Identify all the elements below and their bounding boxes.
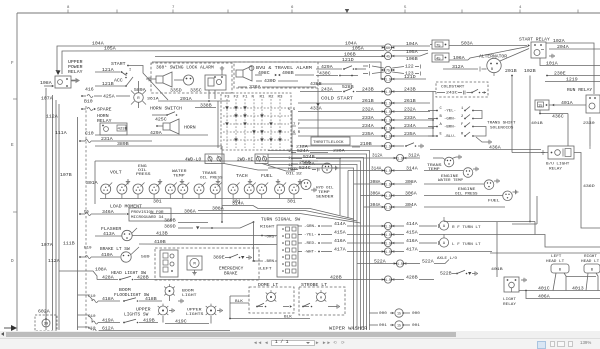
svg-text:A: A <box>443 225 446 229</box>
svg-text:231A: 231A <box>101 136 113 142</box>
svg-text:-GRN-: -GRN- <box>444 118 456 122</box>
wire 308A panel <box>198 206 357 221</box>
bvu speaker <box>236 66 252 81</box>
strobe light enclosure <box>299 283 345 315</box>
svg-text:1.5: 1.5 <box>385 90 391 94</box>
wire 413A 413B <box>95 231 277 238</box>
svg-text:430C: 430C <box>319 71 331 77</box>
svg-text:RIGHT: RIGHT <box>584 255 598 259</box>
svg-text:TEMP: TEMP <box>173 175 185 179</box>
swing lock alarm enclosure <box>151 63 232 93</box>
svg-text:B: B <box>440 115 443 119</box>
wire 436D <box>574 153 600 229</box>
svg-text:261B: 261B <box>362 98 374 104</box>
svg-text:WATER: WATER <box>172 170 187 174</box>
svg-text:OIL PRESS: OIL PRESS <box>200 177 223 181</box>
svg-text:256B: 256B <box>299 160 311 166</box>
ruler center marker <box>345 9 349 13</box>
fuse A10 416 / 425A <box>81 87 130 100</box>
svg-text:1.5: 1.5 <box>397 156 403 160</box>
svg-text:419C: 419C <box>175 319 187 325</box>
svg-text:TRANS: TRANS <box>202 172 217 176</box>
connector row 304A <box>364 202 506 211</box>
svg-text:413B: 413B <box>156 231 168 237</box>
sheet frame left border line <box>16 13 18 332</box>
svg-text:PRESS: PRESS <box>136 173 151 177</box>
alternator <box>479 49 529 77</box>
gauge grounds <box>126 179 302 184</box>
resistor R 361A <box>131 81 159 108</box>
park brake motor <box>187 256 202 275</box>
connector row 308A <box>354 179 484 188</box>
svg-text:N: N <box>252 96 255 100</box>
brake light switch <box>100 247 139 262</box>
svg-text:401A: 401A <box>561 100 573 106</box>
svg-text:361A: 361A <box>147 98 159 102</box>
shift selector diode matrix <box>221 93 291 150</box>
svg-text:COLDSTART: COLDSTART <box>441 86 465 90</box>
svg-text:589: 589 <box>141 256 151 260</box>
svg-text:SOLENOIDS: SOLENOIDS <box>490 127 514 131</box>
wire 336A <box>238 84 316 90</box>
wire 433 vertical to solenoids <box>430 92 434 137</box>
connector box 75 <box>430 40 449 49</box>
svg-text:335D: 335D <box>170 88 182 94</box>
fuel sender <box>488 190 518 204</box>
svg-text:121B: 121B <box>102 81 114 87</box>
svg-text:B/U LIGHT: B/U LIGHT <box>546 162 570 167</box>
svg-text:HORN: HORN <box>184 125 196 131</box>
svg-text:201B: 201B <box>505 68 517 74</box>
svg-text:MICROGUARD 34: MICROGUARD 34 <box>131 216 164 220</box>
svg-text:121A: 121A <box>102 67 114 73</box>
start relay <box>519 39 554 59</box>
svg-text:201A: 201A <box>180 96 192 102</box>
svg-text:429A: 429A <box>321 64 333 70</box>
wire between head lights <box>566 276 596 278</box>
svg-text:106B: 106B <box>406 56 418 62</box>
svg-text:-WHT-: -WHT- <box>304 251 317 255</box>
connector row 233A <box>298 115 430 124</box>
svg-text:000: 000 <box>412 312 420 316</box>
svg-text:BRAKE: BRAKE <box>224 273 238 277</box>
svg-text:111A: 111A <box>55 130 67 136</box>
wire 415A down <box>444 221 535 235</box>
svg-text:1.5: 1.5 <box>385 101 391 105</box>
svg-text:4013: 4013 <box>572 286 584 292</box>
labels 201B 102B <box>505 68 536 74</box>
svg-text:1: 1 <box>461 107 464 111</box>
svg-text:WATER TEMP: WATER TEMP <box>438 179 464 183</box>
svg-text:234A: 234A <box>362 123 374 129</box>
wire 524C <box>291 165 319 172</box>
wire 429A horn feed <box>95 130 208 136</box>
svg-text:SENDER: SENDER <box>316 196 334 200</box>
wire 428B long <box>160 275 384 281</box>
svg-text:-BLU-: -BLU- <box>444 135 456 139</box>
svg-text:R1: R1 <box>260 96 266 100</box>
wire BRN to turn box <box>252 260 277 262</box>
svg-text:122: 122 <box>405 64 414 70</box>
svg-text:301: 301 <box>153 199 162 205</box>
wire 201A <box>158 96 230 102</box>
svg-text:TEMP: TEMP <box>318 191 330 195</box>
svg-text:418A: 418A <box>102 296 114 302</box>
svg-text:-BRN-: -BRN- <box>444 126 456 130</box>
svg-text:HYD OIL: HYD OIL <box>316 187 334 191</box>
alarm module <box>205 66 226 99</box>
svg-text:HEAD LT: HEAD LT <box>581 260 600 264</box>
connector row 234A <box>298 123 430 132</box>
svg-text:104A: 104A <box>92 41 104 47</box>
wire 433A vertical <box>316 88 320 137</box>
svg-text:RELAY: RELAY <box>97 120 112 124</box>
svg-text:1.5: 1.5 <box>385 233 391 237</box>
svg-text:389B: 389B <box>164 218 176 224</box>
svg-text:413A: 413A <box>103 231 115 237</box>
svg-text:BLK: BLK <box>235 300 243 304</box>
svg-text:1.5: 1.5 <box>397 262 403 266</box>
svg-text:1219: 1219 <box>566 77 578 83</box>
horn relay <box>97 115 128 135</box>
svg-text:235A: 235A <box>404 131 416 137</box>
wire 204A <box>549 44 600 50</box>
svg-text:401C: 401C <box>538 286 550 292</box>
svg-text:A: A <box>320 297 323 301</box>
svg-text:000: 000 <box>379 312 387 316</box>
svg-text:416: 416 <box>85 87 94 93</box>
svg-text:F: F <box>461 123 464 127</box>
svg-text:R F TURN LT: R F TURN LT <box>452 226 481 230</box>
svg-text:R2: R2 <box>269 96 275 100</box>
svg-text:243B: 243B <box>362 87 374 93</box>
turn signal switch <box>260 219 301 278</box>
svg-text:UPPER: UPPER <box>136 309 151 313</box>
svg-text:B: B <box>559 269 562 273</box>
label COLD START <box>310 97 354 112</box>
dome lamp <box>256 290 292 308</box>
svg-text:304A: 304A <box>405 202 417 208</box>
wire 102A <box>546 38 594 94</box>
alarm horn speaker <box>146 72 172 87</box>
throttle lock <box>291 137 360 154</box>
svg-text:314A: 314A <box>232 201 244 207</box>
svg-text:DOME LT: DOME LT <box>258 283 279 288</box>
wire 410B <box>139 239 277 260</box>
svg-text:410B: 410B <box>154 239 166 245</box>
svg-text:6 R: 6 R <box>293 131 301 135</box>
label RUN RELAY <box>567 89 593 93</box>
svg-text:30: 30 <box>44 323 48 327</box>
svg-text:ALTERNATOR: ALTERNATOR <box>479 56 508 60</box>
svg-text:75: 75 <box>436 45 441 49</box>
svg-text:108A: 108A <box>95 266 107 272</box>
svg-text:429A: 429A <box>150 130 162 136</box>
svg-text:SPARE: SPARE <box>97 107 112 113</box>
svg-text:346A: 346A <box>102 209 114 215</box>
svg-text:425A: 425A <box>103 94 115 100</box>
svg-text:-BRN-: -BRN- <box>264 260 277 264</box>
svg-text:A: A <box>440 123 443 127</box>
svg-text:RELAY: RELAY <box>549 168 563 172</box>
fuse E10 wire 410A <box>79 247 120 259</box>
svg-text:312A: 312A <box>408 153 420 159</box>
wire 436C <box>539 110 568 120</box>
axle switch 522B <box>440 270 477 276</box>
svg-text:4: 4 <box>519 6 522 10</box>
svg-text:428B: 428B <box>330 275 342 281</box>
run relay box <box>586 95 600 113</box>
svg-text:410A: 410A <box>101 252 113 258</box>
svg-text:243A: 243A <box>321 87 333 93</box>
ignition key switch START/ACC <box>95 61 168 100</box>
svg-text:416A: 416A <box>334 238 346 244</box>
wire 106B bus <box>155 52 384 58</box>
svg-text:406A: 406A <box>538 294 550 300</box>
svg-text:436C: 436C <box>552 114 564 120</box>
horn speaker <box>156 119 196 134</box>
svg-text:312A: 312A <box>452 64 464 70</box>
svg-text:306A: 306A <box>370 193 381 197</box>
svg-text:389D: 389D <box>164 224 176 230</box>
svg-text:15: 15 <box>397 311 401 315</box>
svg-text:524B: 524B <box>303 154 315 160</box>
label LOAD MOMENT <box>110 206 142 210</box>
wire 1219 run relay feed <box>545 77 600 83</box>
svg-text:308A: 308A <box>370 181 381 185</box>
svg-text:I: I <box>129 69 131 73</box>
fuse panel dashed boundary <box>85 106 87 330</box>
wire 108A head light feed <box>59 266 107 279</box>
svg-text:15: 15 <box>397 323 401 327</box>
svg-text:336A: 336A <box>249 84 261 90</box>
svg-text:414A: 414A <box>334 221 346 227</box>
viewer toolbar <box>0 338 600 349</box>
svg-text:TURN SIGNAL SW: TURN SIGNAL SW <box>261 219 301 223</box>
svg-text:105A: 105A <box>406 49 418 55</box>
svg-text:E: E <box>11 143 14 148</box>
matrix stub vertical <box>291 110 293 170</box>
horizontal scrollbar <box>0 331 600 338</box>
svg-text:112A: 112A <box>48 258 60 264</box>
svg-text:VOLT: VOLT <box>110 170 122 176</box>
matrix output stubs <box>288 108 301 168</box>
svg-text:F1: F1 <box>243 96 249 100</box>
fuse H10 wire 612A <box>78 326 231 332</box>
svg-text:602A: 602A <box>38 309 50 315</box>
svg-text:401B: 401B <box>531 122 543 126</box>
svg-text:THROTTLELOCK: THROTTLELOCK <box>313 141 344 145</box>
svg-text:121D: 121D <box>404 74 416 80</box>
wire 101A <box>540 58 600 67</box>
strobe lamp <box>302 290 339 309</box>
svg-text:106A: 106A <box>453 55 465 61</box>
svg-text:M: M <box>193 263 196 267</box>
wire 256B <box>291 160 330 166</box>
svg-text:75: 75 <box>386 68 390 72</box>
wire 314A panel <box>222 201 354 220</box>
connector 60 wires 104A 105A <box>382 41 430 55</box>
svg-text:2330: 2330 <box>583 122 595 126</box>
fuse D5 wire 346A <box>79 209 129 216</box>
svg-text:425C: 425C <box>155 117 167 123</box>
svg-text:522B: 522B <box>440 271 452 277</box>
svg-text:408C: 408C <box>258 70 270 76</box>
cold start switch wires 429A 430C <box>316 64 366 77</box>
svg-text:FUEL: FUEL <box>488 200 500 204</box>
svg-text:-GRN-: -GRN- <box>304 225 317 229</box>
svg-text:TACH: TACH <box>236 173 248 179</box>
svg-text:503A: 503A <box>461 41 473 47</box>
svg-text:338B: 338B <box>200 103 212 109</box>
wire 230E <box>546 71 600 77</box>
wire 306A panel <box>150 209 361 223</box>
svg-text:212A: 212A <box>296 146 308 150</box>
svg-text:15: 15 <box>538 105 542 109</box>
connector row 243B cold start <box>300 87 436 95</box>
coldstart injector <box>436 82 488 97</box>
wire 201B vertical <box>511 75 548 153</box>
svg-text:BOOM: BOOM <box>119 289 131 293</box>
svg-text:107B: 107B <box>60 172 72 178</box>
svg-text:436D: 436D <box>583 185 595 189</box>
svg-text:FUEL: FUEL <box>261 173 273 179</box>
svg-text:C: C <box>440 107 443 111</box>
wire 389B <box>95 141 222 222</box>
svg-text:RELAY: RELAY <box>503 303 517 307</box>
svg-text:5: 5 <box>404 6 407 10</box>
turn wire YEL 415A <box>298 230 600 248</box>
wire 121D from key switch <box>152 57 384 79</box>
dome light enclosure <box>249 283 294 313</box>
trans shift solenoid rows <box>428 107 491 145</box>
wire 408C 408B <box>255 70 314 76</box>
wire 105A upper bus <box>62 46 384 75</box>
svg-text:B10: B10 <box>84 99 93 105</box>
svg-text:415A: 415A <box>334 230 346 236</box>
svg-text:236A: 236A <box>333 150 345 154</box>
wire 401A <box>549 100 586 106</box>
wire 389E switch <box>213 254 251 260</box>
svg-text:OIL: OIL <box>286 173 296 177</box>
wire BLK dome <box>230 296 249 319</box>
svg-text:423B: 423B <box>118 128 128 132</box>
svg-text:304A: 304A <box>370 204 381 208</box>
svg-text:306A: 306A <box>184 209 196 215</box>
right head light <box>581 255 600 291</box>
svg-text:524C: 524C <box>299 165 311 171</box>
svg-text:AXLE L/O: AXLE L/O <box>437 256 458 261</box>
wire 312A alternator <box>443 64 487 72</box>
wire labels 107A 111B 112A lower <box>41 241 75 265</box>
svg-text:418B: 418B <box>145 296 157 302</box>
svg-text:104A: 104A <box>406 41 418 47</box>
svg-text:1.5: 1.5 <box>385 126 391 130</box>
svg-text:STROBE LT: STROBE LT <box>301 283 328 288</box>
svg-text:528B: 528B <box>342 84 354 90</box>
sheet frame top ruler line <box>17 12 600 14</box>
upper lights lamps <box>158 304 223 325</box>
svg-text:1.5: 1.5 <box>385 182 391 186</box>
svg-text:233A: 233A <box>362 115 374 121</box>
svg-text:F10: F10 <box>88 295 96 299</box>
right front turn light <box>434 217 481 230</box>
svg-text:8: 8 <box>67 6 70 10</box>
svg-text:32: 32 <box>296 173 303 177</box>
left front turn light <box>434 234 481 247</box>
svg-text:301A: 301A <box>86 180 98 186</box>
svg-text:R3: R3 <box>278 96 284 100</box>
svg-text:BLK: BLK <box>284 316 292 320</box>
connector box 45 <box>432 53 449 62</box>
turn wire RED 416A <box>298 238 434 247</box>
svg-text:522A: 522A <box>422 259 434 265</box>
svg-text:POWER: POWER <box>68 66 83 70</box>
connector row 121D <box>382 74 426 83</box>
connector box 15 <box>535 100 549 110</box>
connector row 232A <box>298 107 430 116</box>
svg-text:HORN: HORN <box>97 115 109 119</box>
svg-text:RIGHT: RIGHT <box>260 226 275 230</box>
svg-text:7 F: 7 F <box>293 123 301 127</box>
svg-text:415A: 415A <box>406 230 418 236</box>
svg-text:LIGHTS SW: LIGHTS SW <box>124 314 149 318</box>
svg-text:A: A <box>443 242 446 246</box>
svg-text:ENGINE: ENGINE <box>458 188 476 192</box>
svg-text:243C: 243C <box>446 92 458 96</box>
svg-text:LIGHT: LIGHT <box>503 298 517 302</box>
svg-text:1.5: 1.5 <box>385 205 391 209</box>
svg-text:232A: 232A <box>404 107 416 113</box>
svg-text:F3: F3 <box>225 96 231 100</box>
label WIPER WASHER <box>329 326 368 332</box>
connector row 261B <box>298 98 430 107</box>
svg-text:111B: 111B <box>63 241 75 247</box>
svg-text:416A: 416A <box>406 238 418 244</box>
svg-text:1.5: 1.5 <box>385 278 391 282</box>
svg-text:314A: 314A <box>371 168 382 172</box>
svg-text:PROVISION FOR: PROVISION FOR <box>131 211 164 215</box>
svg-text:LEFT: LEFT <box>260 268 272 272</box>
connector row 210B with switch <box>300 141 423 150</box>
svg-text:232A: 232A <box>362 107 374 113</box>
svg-text:2WD-HI: 2WD-HI <box>237 159 254 163</box>
svg-text:417A: 417A <box>406 247 418 253</box>
svg-text:F2: F2 <box>234 96 240 100</box>
svg-text:001: 001 <box>379 324 387 328</box>
svg-text:1.5: 1.5 <box>385 134 391 138</box>
sender module box <box>512 196 537 224</box>
upper power relay U1 <box>55 61 83 88</box>
matrix to bundle wires <box>224 151 370 331</box>
svg-text:7: 7 <box>172 6 175 10</box>
svg-text:234A: 234A <box>404 123 416 129</box>
svg-text:430D: 430D <box>264 78 276 84</box>
svg-text:LIGHTS: LIGHTS <box>186 313 204 317</box>
svg-text:UPPER: UPPER <box>187 309 202 313</box>
svg-text:389E: 389E <box>213 255 225 261</box>
wire 524A <box>291 148 328 154</box>
wire 1219 right vertical <box>593 82 595 96</box>
svg-text:HEAD LT: HEAD LT <box>546 260 565 264</box>
wire 401B light relay drop <box>491 222 503 277</box>
svg-text:R: R <box>137 97 140 101</box>
svg-text:COLD START: COLD START <box>321 97 354 102</box>
connector row 306A <box>361 191 503 200</box>
svg-text:419A: 419A <box>102 318 114 324</box>
emergency brake enclosure <box>155 248 259 280</box>
light relay <box>503 277 526 307</box>
